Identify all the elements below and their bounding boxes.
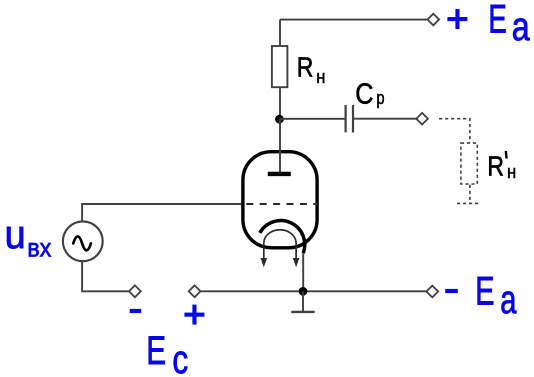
minus sign of Ec <box>130 309 142 313</box>
anode plate bar <box>268 172 291 176</box>
triode envelope U1 <box>243 152 317 248</box>
node ground junction <box>299 287 308 296</box>
svg-text:н: н <box>316 67 325 87</box>
minus sign of -Ea <box>445 289 458 293</box>
svg-text:R: R <box>297 52 314 83</box>
wire top horizontal to +Ea terminal <box>280 19 427 21</box>
plus sign of Ec <box>184 305 204 325</box>
terminal diamond +Ea <box>428 14 440 26</box>
wire node to capacitor <box>279 118 345 120</box>
heater arc (thin) <box>264 230 296 243</box>
svg-text:a: a <box>512 5 531 49</box>
dashed wire below R'H <box>469 185 471 204</box>
terminal diamond Ec plus <box>189 285 201 297</box>
cathode lead to ground node <box>302 253 304 291</box>
source circle uvx <box>63 221 103 261</box>
wire resistor to node <box>279 88 281 119</box>
wire vertical from top wire to resistor RH <box>279 20 281 45</box>
svg-text:R: R <box>487 150 504 181</box>
terminal diamond output <box>416 113 428 125</box>
svg-text:E: E <box>488 0 506 41</box>
resistor RH <box>272 46 288 87</box>
heater lead arrow left <box>261 242 268 267</box>
node anode junction <box>275 115 284 124</box>
capacitor Cp <box>346 105 353 132</box>
sine symbol <box>73 236 91 250</box>
cathode arc (thick) <box>260 221 305 254</box>
svg-text:u: u <box>5 213 26 257</box>
ground <box>291 291 314 312</box>
svg-text:a: a <box>500 278 517 322</box>
svg-text:вх: вх <box>27 234 51 262</box>
svg-text:E: E <box>475 270 494 314</box>
dashed end tick <box>457 202 481 204</box>
dashed wire to R'H <box>439 119 470 143</box>
grid (dashed) <box>246 203 317 205</box>
heater lead arrow right <box>293 242 300 267</box>
anode lead <box>279 119 281 172</box>
grid wire to source <box>82 204 241 222</box>
wire capacitor to output terminal <box>353 118 416 120</box>
bottom wire to -Ea terminal <box>201 290 427 292</box>
resistor R'H (dashed) <box>461 143 477 184</box>
terminal diamond Ec minus <box>129 285 141 297</box>
plus sign of +Ea <box>447 9 467 29</box>
svg-text:р: р <box>376 87 384 108</box>
source bottom lead <box>82 260 129 291</box>
svg-text:н: н <box>507 162 516 182</box>
svg-text:с: с <box>172 338 188 377</box>
terminal diamond -Ea <box>426 286 438 298</box>
svg-text:E: E <box>146 329 166 373</box>
svg-text:C: C <box>355 78 373 110</box>
